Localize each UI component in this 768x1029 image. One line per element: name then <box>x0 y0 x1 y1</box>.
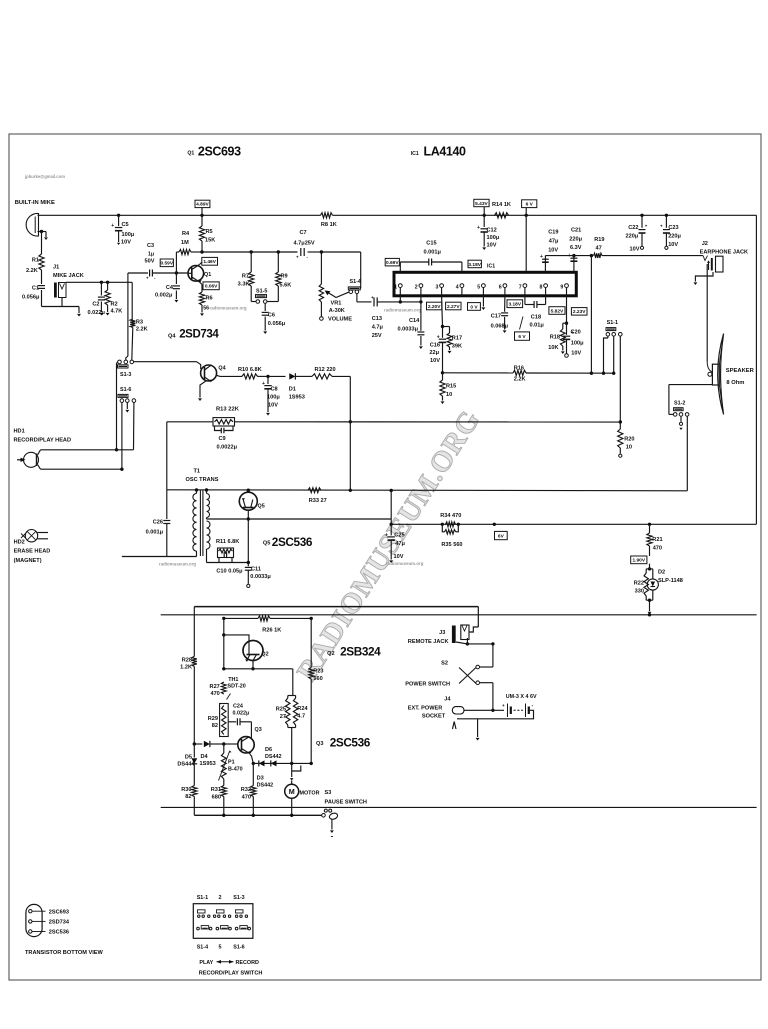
capacitor C13 4.7u <box>356 294 358 302</box>
svg-text:J1: J1 <box>53 265 59 271</box>
svg-text:C19: C19 <box>548 230 558 236</box>
capacitor C11 0.0033u <box>247 563 249 567</box>
capacitor C23 220u 10V <box>665 214 668 217</box>
svg-text:TH1: TH1 <box>228 677 238 683</box>
svg-text:Q5: Q5 <box>258 504 265 510</box>
wire feedback vertical to R16 line <box>590 256 592 374</box>
svg-text:4.7μ: 4.7μ <box>372 325 384 331</box>
svg-text:S1-5: S1-5 <box>256 289 267 295</box>
svg-text:+: + <box>645 223 648 228</box>
capacitor C8 100u 10V <box>267 376 269 384</box>
svg-text:SPEAKER: SPEAKER <box>726 368 755 374</box>
svg-text:Q4: Q4 <box>218 366 225 372</box>
wire Q4 collector to R10 <box>216 375 220 376</box>
svg-text:6 V: 6 V <box>526 202 534 208</box>
wire jack output line <box>66 281 132 283</box>
svg-text:5.6K: 5.6K <box>280 283 292 289</box>
svg-text:R12 220: R12 220 <box>315 367 336 373</box>
wire R16 feedback line <box>443 372 514 374</box>
svg-text:D2: D2 <box>658 570 665 576</box>
jack J1 symbol <box>55 283 57 297</box>
svg-text:1: 1 <box>394 284 397 290</box>
svg-text:R7: R7 <box>242 274 249 280</box>
svg-text:3.18V: 3.18V <box>509 302 522 308</box>
svg-text:B-470: B-470 <box>228 767 243 773</box>
svg-text:R4: R4 <box>182 231 190 237</box>
svg-text:C5: C5 <box>122 222 129 228</box>
capacitor C19 47u 10V <box>544 256 546 273</box>
svg-text:C4: C4 <box>166 285 174 291</box>
svg-text:RECORD/PLAY SWITCH: RECORD/PLAY SWITCH <box>199 971 263 977</box>
svg-text:PAUSE SWITCH: PAUSE SWITCH <box>325 800 367 806</box>
head HD1 symbol <box>24 452 39 467</box>
svg-text:R17: R17 <box>452 336 462 342</box>
resistor R28 1.2K <box>193 607 195 657</box>
microphone symbol <box>26 213 38 236</box>
wire C1 bottom to jack sleeve <box>42 306 80 308</box>
svg-text:C16: C16 <box>430 343 440 349</box>
wire head top line <box>41 449 134 451</box>
svg-text:TRANSISTOR BOTTOM VIEW: TRANSISTOR BOTTOM VIEW <box>25 950 104 956</box>
svg-text:220μ: 220μ <box>569 237 582 243</box>
svg-text:C24: C24 <box>233 703 243 709</box>
svg-text:Q1: Q1 <box>204 272 211 278</box>
svg-text:R31: R31 <box>211 787 221 793</box>
voltage box 4.89V <box>195 200 210 207</box>
voltage box 0.59V <box>160 259 173 267</box>
svg-text:R5: R5 <box>206 229 213 235</box>
svg-text:330: 330 <box>635 589 644 595</box>
svg-text:2.27V: 2.27V <box>447 304 460 310</box>
wire battery return <box>457 710 534 719</box>
contact J4 inner prong <box>453 722 457 730</box>
svg-text:R30: R30 <box>181 787 191 793</box>
svg-text:RECORD: RECORD <box>236 960 259 966</box>
motor M <box>291 763 293 777</box>
wire R13 long line <box>167 421 213 423</box>
svg-text:R25: R25 <box>276 707 286 713</box>
svg-text:R3: R3 <box>136 320 143 326</box>
transformer T1 secondary coil <box>206 490 208 494</box>
svg-text:C21: C21 <box>571 228 581 234</box>
svg-text:DS442: DS442 <box>257 783 273 789</box>
node Q1 base junction <box>175 271 178 274</box>
svg-text:C1: C1 <box>32 286 39 292</box>
svg-text:+: + <box>385 532 388 538</box>
svg-text:+: + <box>568 253 571 259</box>
svg-text:C8: C8 <box>271 387 278 393</box>
voltage box 5.82V <box>549 307 565 315</box>
svg-text:0.69V: 0.69V <box>386 260 399 266</box>
svg-text:S1-4: S1-4 <box>350 279 361 285</box>
svg-text:BUILT-IN MIKE: BUILT-IN MIKE <box>15 200 55 206</box>
svg-text:C25: C25 <box>394 533 404 539</box>
svg-text:radiomuseum.org: radiomuseum.org <box>159 562 196 567</box>
svg-text:C12: C12 <box>487 228 497 234</box>
svg-text:+: + <box>502 703 505 708</box>
svg-text:LA4140: LA4140 <box>424 145 467 159</box>
wire diode line y=763.4 <box>253 762 311 764</box>
wire Q2 collector hook <box>223 618 225 668</box>
svg-text:470: 470 <box>653 546 662 552</box>
svg-text:R8 1K: R8 1K <box>321 222 337 228</box>
svg-text:A-30K: A-30K <box>329 308 345 314</box>
wire riser to S1-3 middle <box>127 282 129 356</box>
capacitor C2 0.022u <box>100 282 102 295</box>
svg-text:R13 22K: R13 22K <box>216 407 240 413</box>
wire pin5 ground stub <box>482 296 484 307</box>
wire S1-1 right contact down <box>619 336 621 422</box>
svg-text:0.0033μ: 0.0033μ <box>398 327 419 333</box>
svg-text:C26: C26 <box>153 520 163 526</box>
voltage box 2.23V <box>571 308 587 316</box>
svg-text:D6: D6 <box>265 747 272 753</box>
svg-text:4.7K: 4.7K <box>111 309 123 315</box>
svg-text:C2: C2 <box>92 302 99 308</box>
diode D1 1S953 <box>268 375 286 377</box>
wire T1 tap line y=519 <box>207 518 392 520</box>
svg-text:-: - <box>532 703 534 709</box>
capacitor C9 0.0022u <box>215 426 222 431</box>
svg-text:8: 8 <box>540 284 543 290</box>
voltage box 3.18V pin7 <box>507 300 523 308</box>
svg-text:2SC693: 2SC693 <box>49 909 69 915</box>
svg-text:P1: P1 <box>228 760 235 766</box>
svg-text:2.20V: 2.20V <box>428 304 441 310</box>
svg-text:S3: S3 <box>325 790 332 796</box>
svg-text:R11 6.8K: R11 6.8K <box>216 539 239 545</box>
wire head bottom line <box>41 468 122 470</box>
svg-text:4: 4 <box>456 284 459 290</box>
svg-text:+: + <box>111 223 114 229</box>
svg-text:R20: R20 <box>624 437 634 443</box>
diode D6 DS442 <box>271 760 277 766</box>
svg-text:R27: R27 <box>210 684 220 690</box>
capacitor C6 0.056u <box>264 303 266 311</box>
svg-text:2.2K: 2.2K <box>136 327 148 333</box>
svg-text:S1-3: S1-3 <box>233 895 244 901</box>
svg-text:0.022μ: 0.022μ <box>88 310 106 316</box>
transformer T1 primary coil <box>196 490 198 494</box>
diode D4 1S953 <box>204 741 210 747</box>
svg-text:1S953: 1S953 <box>289 395 305 401</box>
voltage box 2.20V <box>427 302 442 310</box>
wire +6V top rail <box>39 214 321 216</box>
wire Q5 emitter down <box>247 510 249 562</box>
capacitor C14 0.0033u <box>420 302 422 331</box>
svg-text:S1-1: S1-1 <box>197 895 208 901</box>
resistor R12 220 <box>312 374 332 379</box>
svg-text:+: + <box>371 295 374 300</box>
wire S1-2 to Q5 emitter line <box>686 416 688 491</box>
transistor pins and leads <box>29 910 32 913</box>
svg-text:PLAY: PLAY <box>199 960 213 966</box>
resistor R21 470 <box>649 524 651 533</box>
wire J4 to battery <box>464 709 504 711</box>
wire pin2 down <box>420 296 422 302</box>
capacitor C5 100u 10V <box>117 214 120 217</box>
svg-text:0.0033μ: 0.0033μ <box>250 574 271 580</box>
capacitor C20 100u 10V <box>566 323 568 335</box>
svg-text:25V: 25V <box>372 333 382 339</box>
svg-text:D4: D4 <box>201 754 209 760</box>
voltage box 6V rail <box>522 200 537 208</box>
wire earphone output line <box>545 255 591 257</box>
transistor Q4 <box>201 365 217 381</box>
svg-text:4.7: 4.7 <box>297 714 305 720</box>
svg-text:10: 10 <box>626 445 632 451</box>
svg-text:3.18V: 3.18V <box>468 262 481 268</box>
svg-text:S1-1: S1-1 <box>607 320 618 326</box>
resistor R11 6.8K with C10 <box>218 548 234 558</box>
svg-text:OSC TRANS: OSC TRANS <box>186 477 219 483</box>
svg-text:Q5: Q5 <box>263 541 270 547</box>
wire supply line y=524 <box>391 523 756 525</box>
svg-text:J4: J4 <box>444 697 451 703</box>
svg-text:R14 1K: R14 1K <box>492 202 511 208</box>
svg-text:0.022μ: 0.022μ <box>233 710 250 716</box>
svg-text:+: + <box>146 276 149 281</box>
capacitor C26 0.001u <box>166 490 168 519</box>
wire mic to rail <box>38 214 39 216</box>
svg-text:0.056μ: 0.056μ <box>268 321 286 327</box>
wire speaker to S1-2 <box>669 384 713 386</box>
svg-text:1S953: 1S953 <box>200 761 216 767</box>
voltage box 2.27V <box>446 302 461 310</box>
svg-text:0.068μ: 0.068μ <box>491 324 509 330</box>
resistor R2 4.7K <box>107 282 109 290</box>
wire long line y=807.4 <box>161 806 757 808</box>
wire Q1 collector line <box>202 251 251 253</box>
svg-text:R9: R9 <box>281 274 288 280</box>
svg-text:C17: C17 <box>491 314 501 320</box>
voltage box 6V mid <box>495 531 508 539</box>
svg-text:C22: C22 <box>628 225 638 231</box>
svg-text:10V: 10V <box>121 240 131 246</box>
svg-text:27: 27 <box>280 714 286 720</box>
resistor R1 2.2K <box>41 232 43 255</box>
svg-text:R15: R15 <box>446 384 456 390</box>
svg-text:MIKE JACK: MIKE JACK <box>53 273 84 279</box>
capacitor C15 0.001u top <box>399 262 401 272</box>
svg-text:2SC536: 2SC536 <box>49 930 69 936</box>
svg-text:5: 5 <box>219 945 222 951</box>
capacitor C17 0.068u pin6 <box>504 296 506 312</box>
transistor Q5 <box>239 492 257 510</box>
svg-text:R24: R24 <box>297 706 308 712</box>
resistor R10 6.8K <box>220 375 242 377</box>
svg-text:D3: D3 <box>257 776 264 782</box>
svg-text:SLP-1148: SLP-1148 <box>658 578 683 584</box>
svg-text:Q2: Q2 <box>327 651 334 657</box>
resistor R8 on rail <box>321 213 333 218</box>
voltage box 1.46V <box>202 257 218 265</box>
wire Q3 base line y=744 <box>194 743 202 745</box>
resistor R18 10K <box>563 322 567 324</box>
svg-text:2.23V: 2.23V <box>573 309 586 315</box>
wire Q2 emitter to base line <box>252 661 254 669</box>
wire jack line riser to C3 <box>127 273 129 282</box>
svg-text:S1-4: S1-4 <box>197 945 208 951</box>
resistor R33 27 <box>308 488 321 493</box>
voltage box 0V <box>468 303 481 311</box>
capacitor C16 22u 10V <box>442 327 444 338</box>
svg-text:Q3: Q3 <box>255 727 262 733</box>
svg-text:Q2: Q2 <box>261 652 268 658</box>
svg-text:UM-3 X 4 6V: UM-3 X 4 6V <box>506 694 537 700</box>
capacitor C3 1u 50V <box>128 272 148 274</box>
svg-text:1.90V: 1.90V <box>633 558 646 564</box>
wire T1 bottom line <box>122 556 197 558</box>
svg-text:C14: C14 <box>409 318 420 324</box>
svg-text:DS442: DS442 <box>265 754 281 760</box>
svg-text:IC1: IC1 <box>487 264 495 270</box>
svg-text:C10 0.05μ: C10 0.05μ <box>216 569 243 575</box>
svg-text:5.82V: 5.82V <box>551 308 564 314</box>
svg-text:10V: 10V <box>430 358 440 364</box>
resistor R13 22K with C9 <box>213 418 235 426</box>
resistor R17 39K <box>443 326 450 328</box>
svg-text:J3: J3 <box>439 630 445 636</box>
resistor R26 1K <box>258 616 270 621</box>
svg-text:+: + <box>540 254 543 260</box>
wire J2 to speaker <box>706 264 708 362</box>
svg-text:M: M <box>289 787 295 796</box>
wire osc collector line y=490 <box>167 490 688 491</box>
resistor R9 5.6K <box>277 252 279 272</box>
transistor Q2 <box>243 641 263 661</box>
svg-text:REMOTE JACK: REMOTE JACK <box>408 639 449 645</box>
svg-text:C23: C23 <box>668 225 678 231</box>
svg-text:0.01μ: 0.01μ <box>530 323 545 329</box>
svg-text:jpburke@gmail.com: jpburke@gmail.com <box>24 174 65 179</box>
resistor R27 470 <box>221 682 226 694</box>
voltage box 3.18V top <box>468 260 481 268</box>
svg-text:82: 82 <box>212 723 218 729</box>
wire block top line y=606.6 <box>194 606 478 608</box>
svg-text:82: 82 <box>185 794 191 800</box>
svg-text:+: + <box>660 223 663 228</box>
svg-text:-: - <box>307 255 309 260</box>
svg-text:C20: C20 <box>571 330 581 336</box>
capacitor C18 0.01u pins7-8 <box>524 296 526 305</box>
svg-text:10K: 10K <box>548 345 558 351</box>
svg-text:EARPHONE JACK: EARPHONE JACK <box>700 249 749 255</box>
svg-text:R22: R22 <box>634 581 644 587</box>
resistor R7 3.3K <box>250 252 252 272</box>
svg-text:2: 2 <box>219 895 222 901</box>
svg-text:SDT-20: SDT-20 <box>228 684 246 690</box>
svg-text:C6: C6 <box>268 313 275 319</box>
svg-text:100μ: 100μ <box>122 232 135 238</box>
svg-text:2.2K: 2.2K <box>26 268 38 274</box>
svg-text:R32: R32 <box>241 787 251 793</box>
wire R13 line left end down to osc line <box>166 422 168 490</box>
wire S1-1 left contact to R16 line <box>607 336 609 338</box>
svg-text:3.3K: 3.3K <box>238 282 250 288</box>
svg-text:10V: 10V <box>668 242 678 248</box>
wire J3 to S2 <box>492 644 494 667</box>
resistor R4 1M feedback <box>175 252 177 273</box>
svg-text:C3: C3 <box>147 243 154 249</box>
wire 6V to IC pin7 top <box>525 214 528 217</box>
speaker 8 Ohm <box>712 364 719 385</box>
resistor R32 470 <box>252 763 254 785</box>
wire riser x=391 to 524 line <box>390 491 392 525</box>
wire Q2 base line y=668.8 <box>224 668 293 670</box>
svg-text:0.001μ: 0.001μ <box>146 530 164 536</box>
svg-text:0 V: 0 V <box>470 304 478 310</box>
svg-text:0.0022μ: 0.0022μ <box>217 445 238 451</box>
svg-text:10: 10 <box>446 392 452 398</box>
svg-text:RECORD/PLAY HEAD: RECORD/PLAY HEAD <box>14 438 72 444</box>
svg-text:C18: C18 <box>531 315 541 321</box>
svg-text:VR1: VR1 <box>331 301 342 307</box>
svg-text:10V: 10V <box>571 351 581 357</box>
svg-text:S1-6: S1-6 <box>120 387 131 393</box>
svg-text:S2: S2 <box>441 661 448 667</box>
svg-text:2SC536: 2SC536 <box>272 535 313 549</box>
voltage box 5.43V <box>474 199 489 206</box>
svg-text:Q1: Q1 <box>187 151 194 157</box>
svg-text:2: 2 <box>415 284 418 290</box>
svg-text:220μ: 220μ <box>626 234 639 240</box>
svg-text:1.2K: 1.2K <box>180 665 192 671</box>
wire Q4 emitter ground <box>200 381 207 398</box>
svg-text:2SC693: 2SC693 <box>198 145 241 159</box>
svg-text:R18: R18 <box>550 335 560 341</box>
svg-text:47μ: 47μ <box>549 239 559 245</box>
svg-text:4.7μ25V: 4.7μ25V <box>294 241 315 247</box>
voltage box 0.69V <box>385 258 399 266</box>
svg-text:1.46V: 1.46V <box>203 259 216 265</box>
resistor R16 2.2K <box>513 370 526 375</box>
wire pin1 to C13 line <box>399 296 401 302</box>
svg-text:1μ: 1μ <box>148 252 154 258</box>
transistor Q1 <box>188 266 204 282</box>
svg-text:50V: 50V <box>145 259 155 265</box>
svg-text:radiomuseum.org: radiomuseum.org <box>384 308 421 313</box>
svg-text:22μ: 22μ <box>429 350 439 356</box>
svg-text:1M: 1M <box>181 240 189 246</box>
switch table box <box>193 904 253 939</box>
capacitor C25 47u 10V <box>390 524 392 535</box>
capacitor C7 4.7u 25V <box>300 248 302 256</box>
capacitor C12 100u 10V <box>483 215 485 227</box>
op-amp IC1 LA4140 body <box>394 272 576 296</box>
transformer T1 core <box>199 490 201 557</box>
capacitor C1 0.056u <box>41 270 43 284</box>
resistor R19 47 <box>594 253 603 258</box>
svg-text:10V: 10V <box>548 248 558 254</box>
svg-text:Q4: Q4 <box>168 334 176 340</box>
svg-text:R6: R6 <box>206 296 213 302</box>
svg-text:R35 560: R35 560 <box>441 542 462 548</box>
capacitor C21 220u 6.3V <box>572 254 575 257</box>
wire R26 line y=618.4 <box>224 617 258 619</box>
resistor R30 82 <box>192 786 197 797</box>
svg-text:R10 6.8K: R10 6.8K <box>238 367 262 373</box>
wire bottom bus y=815.3 <box>194 814 322 816</box>
voltage box 0.06V <box>203 282 219 290</box>
svg-text:C11: C11 <box>251 567 261 573</box>
svg-text:220μ: 220μ <box>668 234 681 240</box>
svg-text:+: + <box>262 381 265 387</box>
svg-text:0.001μ: 0.001μ <box>424 249 442 255</box>
resistor R20 10 <box>619 422 621 429</box>
svg-text:R23: R23 <box>313 669 323 675</box>
svg-text:VOLUME: VOLUME <box>328 317 352 323</box>
